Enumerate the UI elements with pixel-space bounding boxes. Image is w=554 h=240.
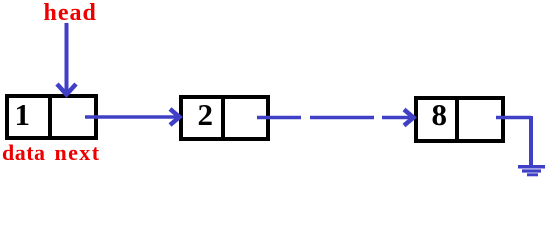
node 1 divider — [48, 94, 52, 140]
svg-text:2: 2 — [198, 97, 214, 132]
svg-text:data: data — [2, 140, 46, 165]
svg-text:next: next — [55, 140, 101, 165]
svg-text:8: 8 — [432, 97, 448, 132]
node 2 box — [181, 97, 268, 139]
head pointer arrow (down) — [57, 23, 76, 95]
node 3 box — [416, 98, 503, 141]
svg-text:1: 1 — [15, 97, 31, 132]
node 3 divider — [455, 96, 459, 143]
null pointer wire from node3 — [496, 116, 531, 165]
node 1 box — [7, 96, 96, 138]
node 2 divider — [221, 95, 225, 141]
ground symbol (null) — [518, 167, 545, 175]
svg-text:head: head — [44, 0, 97, 26]
dashed arrow node2 next to node3 — [257, 110, 414, 126]
arrow node1 next to node2 — [85, 109, 180, 125]
